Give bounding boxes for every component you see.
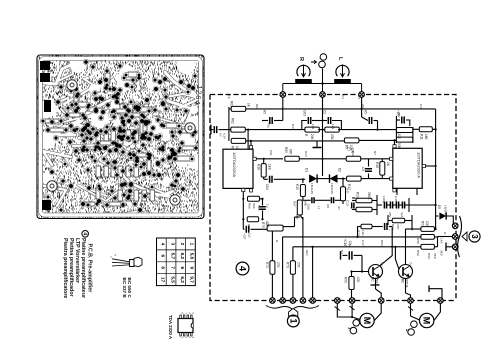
svg-text:R12: R12 [351, 151, 355, 157]
svg-text:T4: T4 [408, 262, 412, 266]
svg-text:Pletina preamplificador: Pletina preamplificador [68, 238, 74, 297]
svg-text:6: 6 [161, 255, 166, 258]
svg-text:A7: A7 [219, 133, 223, 137]
svg-text:R13: R13 [291, 124, 295, 130]
svg-text:D5: D5 [437, 205, 441, 209]
svg-text:D1: D1 [305, 168, 309, 172]
svg-text:1µ5: 1µ5 [311, 124, 315, 130]
svg-text:6,2: 6,2 [180, 276, 185, 283]
svg-text:C63: C63 [303, 110, 307, 116]
svg-text:R67: R67 [293, 201, 297, 207]
svg-text:9: 9 [190, 266, 195, 269]
svg-text:100: 100 [425, 221, 429, 227]
svg-text:C13: C13 [346, 200, 350, 206]
svg-text:R61: R61 [230, 101, 234, 107]
svg-text:3: 3 [470, 234, 479, 239]
svg-text:A37: A37 [346, 188, 350, 194]
svg-text:3K9: 3K9 [440, 250, 444, 256]
svg-text:6: 6 [180, 266, 185, 269]
svg-text:1µ: 1µ [265, 221, 269, 225]
svg-text:TDA 2320 A: TDA 2320 A [168, 315, 173, 340]
svg-text:R63: R63 [255, 104, 259, 110]
svg-text:D2: D2 [338, 168, 342, 172]
svg-text:+C16: +C16 [343, 239, 347, 247]
svg-text:10K: 10K [361, 230, 365, 236]
svg-text:A5: A5 [364, 110, 368, 114]
svg-text:M: M [422, 317, 432, 325]
svg-text:C64: C64 [265, 184, 269, 190]
svg-text:N7: N7 [373, 151, 377, 155]
svg-text:R65: R65 [284, 147, 288, 153]
svg-text:Piastra preamplificatore: Piastra preamplificatore [62, 238, 68, 298]
svg-text:R15: R15 [295, 184, 299, 190]
svg-text:C66: C66 [307, 204, 311, 210]
svg-text:R14: R14 [304, 151, 308, 157]
svg-text:R24: R24 [391, 224, 395, 230]
svg-text:M: M [362, 317, 372, 325]
svg-text:R66: R66 [248, 203, 252, 209]
svg-text:R: R [298, 57, 304, 61]
svg-text:P.C.B. Pre-amplifier: P.C.B. Pre-amplifier [86, 244, 92, 293]
svg-text:BC 550 C: BC 550 C [127, 278, 132, 299]
svg-text:47µ: 47µ [267, 123, 271, 128]
svg-text:C17: C17 [361, 240, 365, 246]
svg-text:4: 4 [81, 232, 87, 235]
svg-text:R18: R18 [375, 162, 379, 168]
svg-text:5,8: 5,8 [190, 253, 195, 260]
svg-text:5K6: 5K6 [257, 205, 261, 211]
svg-text:A7: A7 [337, 206, 341, 210]
svg-text:20K: 20K [330, 134, 334, 141]
svg-text:N7: N7 [340, 250, 344, 254]
svg-text:LL: LL [317, 206, 321, 210]
svg-text:R·: R· [275, 240, 279, 243]
svg-text:100µ: 100µ [382, 196, 386, 203]
svg-text:20K: 20K [397, 134, 401, 141]
svg-text:40V: 40V [397, 112, 401, 118]
svg-text:5,5: 5,5 [170, 276, 175, 283]
svg-text:R71: R71 [265, 262, 269, 268]
svg-text:5K6: 5K6 [252, 203, 256, 209]
svg-text:1N4148: 1N4148 [444, 205, 448, 216]
svg-text:Platine preamplificateur: Platine preamplificateur [80, 238, 86, 298]
svg-text:18K: 18K [424, 134, 428, 141]
svg-text:R62: R62 [231, 118, 235, 124]
svg-text:1K4: 1K4 [440, 238, 444, 244]
svg-text:8: 8 [161, 266, 166, 269]
svg-text:+: + [388, 229, 392, 231]
svg-text:7: 7 [170, 266, 175, 269]
svg-text:R59: R59 [416, 250, 420, 256]
svg-text:R73: R73 [286, 262, 290, 268]
svg-text:C11: C11 [419, 104, 423, 110]
svg-text:C15: C15 [394, 196, 398, 202]
svg-text:BC: BC [371, 277, 375, 282]
svg-text:2µ2: 2µ2 [248, 233, 252, 238]
svg-text:100: 100 [356, 277, 360, 283]
svg-text:R9: R9 [345, 145, 349, 149]
svg-text:A5: A5 [263, 110, 267, 114]
svg-text:9,7: 9,7 [190, 276, 195, 283]
svg-text:2: 2 [180, 243, 185, 246]
svg-text:6,3V: 6,3V [223, 133, 227, 139]
svg-text:R50: R50 [344, 277, 348, 283]
svg-text:LTP Vorverstärker: LTP Vorverstärker [74, 238, 80, 283]
svg-text:+C67: +C67 [243, 233, 247, 240]
svg-text:3K9: 3K9 [433, 253, 437, 259]
svg-text:4: 4 [238, 266, 248, 271]
svg-text:C2: C2 [323, 110, 327, 114]
svg-text:R70: R70 [261, 222, 265, 228]
svg-text:R67: R67 [305, 250, 309, 256]
svg-text:1µ5: 1µ5 [331, 124, 335, 130]
svg-text:R16: R16 [257, 164, 261, 170]
svg-text:R57: R57 [421, 221, 425, 227]
svg-text:680: 680 [289, 149, 293, 155]
svg-text:C61: C61 [269, 150, 273, 156]
svg-text:A5: A5 [361, 104, 365, 108]
svg-text:1/2TDA2320 A: 1/2TDA2320 A [417, 152, 422, 178]
svg-text:4µ7: 4µ7 [400, 212, 404, 218]
svg-text:680: 680 [295, 214, 299, 219]
svg-text:C9: C9 [361, 167, 365, 171]
svg-text:C3: C3 [357, 95, 361, 99]
svg-text:560K: 560K [367, 192, 371, 200]
svg-text:1N4148: 1N4148 [330, 183, 334, 194]
svg-text:R59: R59 [427, 253, 431, 259]
svg-text:R58: R58 [416, 238, 420, 244]
svg-text:1N4148: 1N4148 [310, 183, 314, 194]
svg-text:1µ: 1µ [266, 204, 270, 208]
svg-text:47K: 47K [396, 224, 400, 230]
svg-text:27K: 27K [276, 262, 280, 269]
svg-text:R11: R11 [420, 134, 424, 140]
svg-text:5,7: 5,7 [170, 253, 175, 260]
svg-text:10µ: 10µ [348, 241, 352, 247]
svg-text:BC: BC [401, 279, 405, 284]
svg-text:1K6: 1K6 [268, 164, 272, 170]
svg-text:R53: R53 [380, 240, 384, 246]
svg-text:C8: C8 [326, 204, 330, 208]
svg-text:1: 1 [288, 318, 298, 323]
svg-text:3: 3 [170, 243, 175, 246]
svg-text:L: L [337, 57, 343, 61]
svg-text:R21: R21 [356, 192, 360, 198]
svg-text:17: 17 [161, 277, 166, 283]
svg-text:25V: 25V [388, 212, 392, 218]
svg-text:BC 337 B: BC 337 B [122, 278, 127, 299]
svg-text:1/2TDA2320A: 1/2TDA2320A [232, 152, 237, 177]
svg-text:R·: R· [443, 232, 447, 235]
svg-text:C1: C1 [341, 95, 345, 99]
svg-text:4: 4 [161, 243, 166, 246]
svg-text:27K: 27K [297, 262, 301, 269]
svg-text:6,2: 6,2 [180, 253, 185, 260]
svg-text:20K: 20K [310, 134, 314, 141]
svg-text:1: 1 [190, 243, 195, 246]
